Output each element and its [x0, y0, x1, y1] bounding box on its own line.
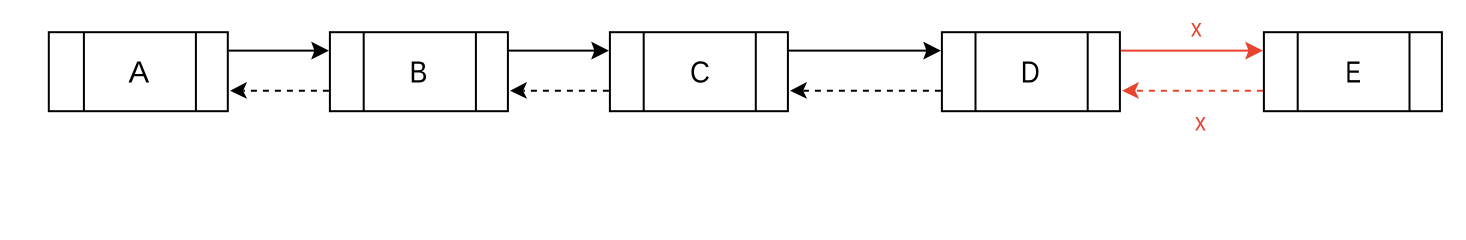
svg-text:x: x: [1195, 108, 1206, 137]
node B: [330, 32, 508, 111]
svg-text:E: E: [1346, 54, 1362, 89]
wire solid arrow B to C: [509, 42, 609, 60]
node E: [1264, 32, 1442, 111]
svg-text:x: x: [1191, 14, 1202, 43]
wire solid arrow A to B: [229, 42, 329, 60]
wire solid arrow C to D: [789, 42, 941, 60]
wire red solid arrow D to E (deleted link): [1121, 42, 1263, 60]
wire dashed arrow C to B: [510, 82, 609, 99]
node A: [49, 32, 228, 111]
svg-text:B: B: [410, 56, 428, 90]
svg-text:A: A: [129, 54, 150, 89]
svg-text:D: D: [1021, 55, 1040, 89]
node C: [610, 32, 788, 111]
svg-text:C: C: [690, 55, 710, 90]
node D: [942, 32, 1120, 111]
wire red dashed arrow E to D (deleted link): [1122, 82, 1263, 99]
wire dashed arrow B to A: [230, 82, 329, 99]
wire dashed arrow D to C: [790, 82, 941, 99]
